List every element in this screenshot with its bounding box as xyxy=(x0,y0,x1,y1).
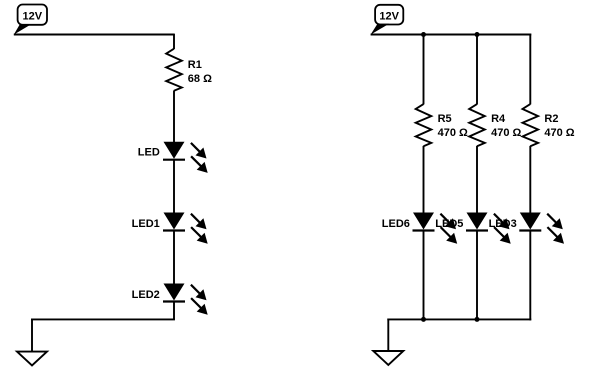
svg-text:LED2: LED2 xyxy=(132,289,160,301)
svg-text:12V: 12V xyxy=(379,11,399,23)
wire: top horizontal from 12V to R1 branch xyxy=(14,34,174,36)
resistor R2 xyxy=(523,104,539,146)
svg-text:LED6: LED6 xyxy=(382,218,410,230)
svg-text:68 Ω: 68 Ω xyxy=(188,73,212,85)
svg-text:LED: LED xyxy=(138,147,160,159)
svg-text:LED3: LED3 xyxy=(489,218,517,230)
wire: branch down to R2 xyxy=(529,34,531,105)
wire: branch down to R5 xyxy=(423,35,425,105)
LED3 xyxy=(519,213,564,244)
wire: top horizontal bus of parallel circuit xyxy=(371,34,532,36)
wire: R1 to LED anode xyxy=(173,91,175,144)
wire: LED3 cathode to bottom bus xyxy=(529,231,531,321)
junction node: bottom bus / branch 1 xyxy=(421,317,426,322)
svg-text:470 Ω: 470 Ω xyxy=(544,127,574,139)
LED6 xyxy=(413,213,458,244)
resistor R5 xyxy=(416,104,432,146)
svg-text:R5: R5 xyxy=(438,113,452,125)
svg-text:LED1: LED1 xyxy=(132,218,160,230)
wire: resistor to LED3 anode xyxy=(529,146,531,214)
svg-text:12V: 12V xyxy=(23,11,43,23)
wire: vertical down to R1 xyxy=(173,34,175,49)
LED1 xyxy=(163,213,208,244)
svg-text:R1: R1 xyxy=(188,59,202,71)
svg-text:470 Ω: 470 Ω xyxy=(491,127,521,139)
power supply 12V callout (left) xyxy=(14,5,47,35)
svg-text:R2: R2 xyxy=(544,113,558,125)
junction node: top bus / branch 1 xyxy=(421,32,426,37)
wire: resistor to LED6 anode xyxy=(423,146,425,214)
wire: resistor to LED5 anode xyxy=(476,146,478,214)
wire: branch down to R4 xyxy=(476,35,478,105)
wire: bottom horizontal to ground stem xyxy=(31,318,175,320)
LED (top diode of series string) xyxy=(163,142,208,173)
svg-text:LED5: LED5 xyxy=(435,218,463,230)
ground (right) xyxy=(373,351,403,365)
junction node: top bus / branch 2 xyxy=(475,32,480,37)
LED2 xyxy=(163,284,208,315)
junction node: bottom bus / branch 2 xyxy=(475,317,480,322)
wire: LED2 cathode down xyxy=(173,302,175,320)
wire: vertical down to left ground xyxy=(31,319,33,352)
svg-text:470 Ω: 470 Ω xyxy=(438,127,468,139)
ground (left) xyxy=(17,352,47,366)
wire: LED5 cathode to bottom bus xyxy=(476,231,478,320)
wire: LED6 cathode to bottom bus xyxy=(423,231,425,320)
power supply 12V callout (right) xyxy=(371,5,404,35)
wire: vertical down to right ground xyxy=(387,319,389,352)
wire: LED1 cathode to LED2 anode xyxy=(173,231,175,285)
wire: bottom horizontal bus to ground stem xyxy=(387,318,531,320)
resistor R1 xyxy=(166,49,182,91)
LED5 xyxy=(466,213,511,244)
wire: LED cathode to LED1 anode xyxy=(173,160,175,214)
svg-text:R4: R4 xyxy=(491,113,506,125)
resistor R4 xyxy=(469,104,485,146)
